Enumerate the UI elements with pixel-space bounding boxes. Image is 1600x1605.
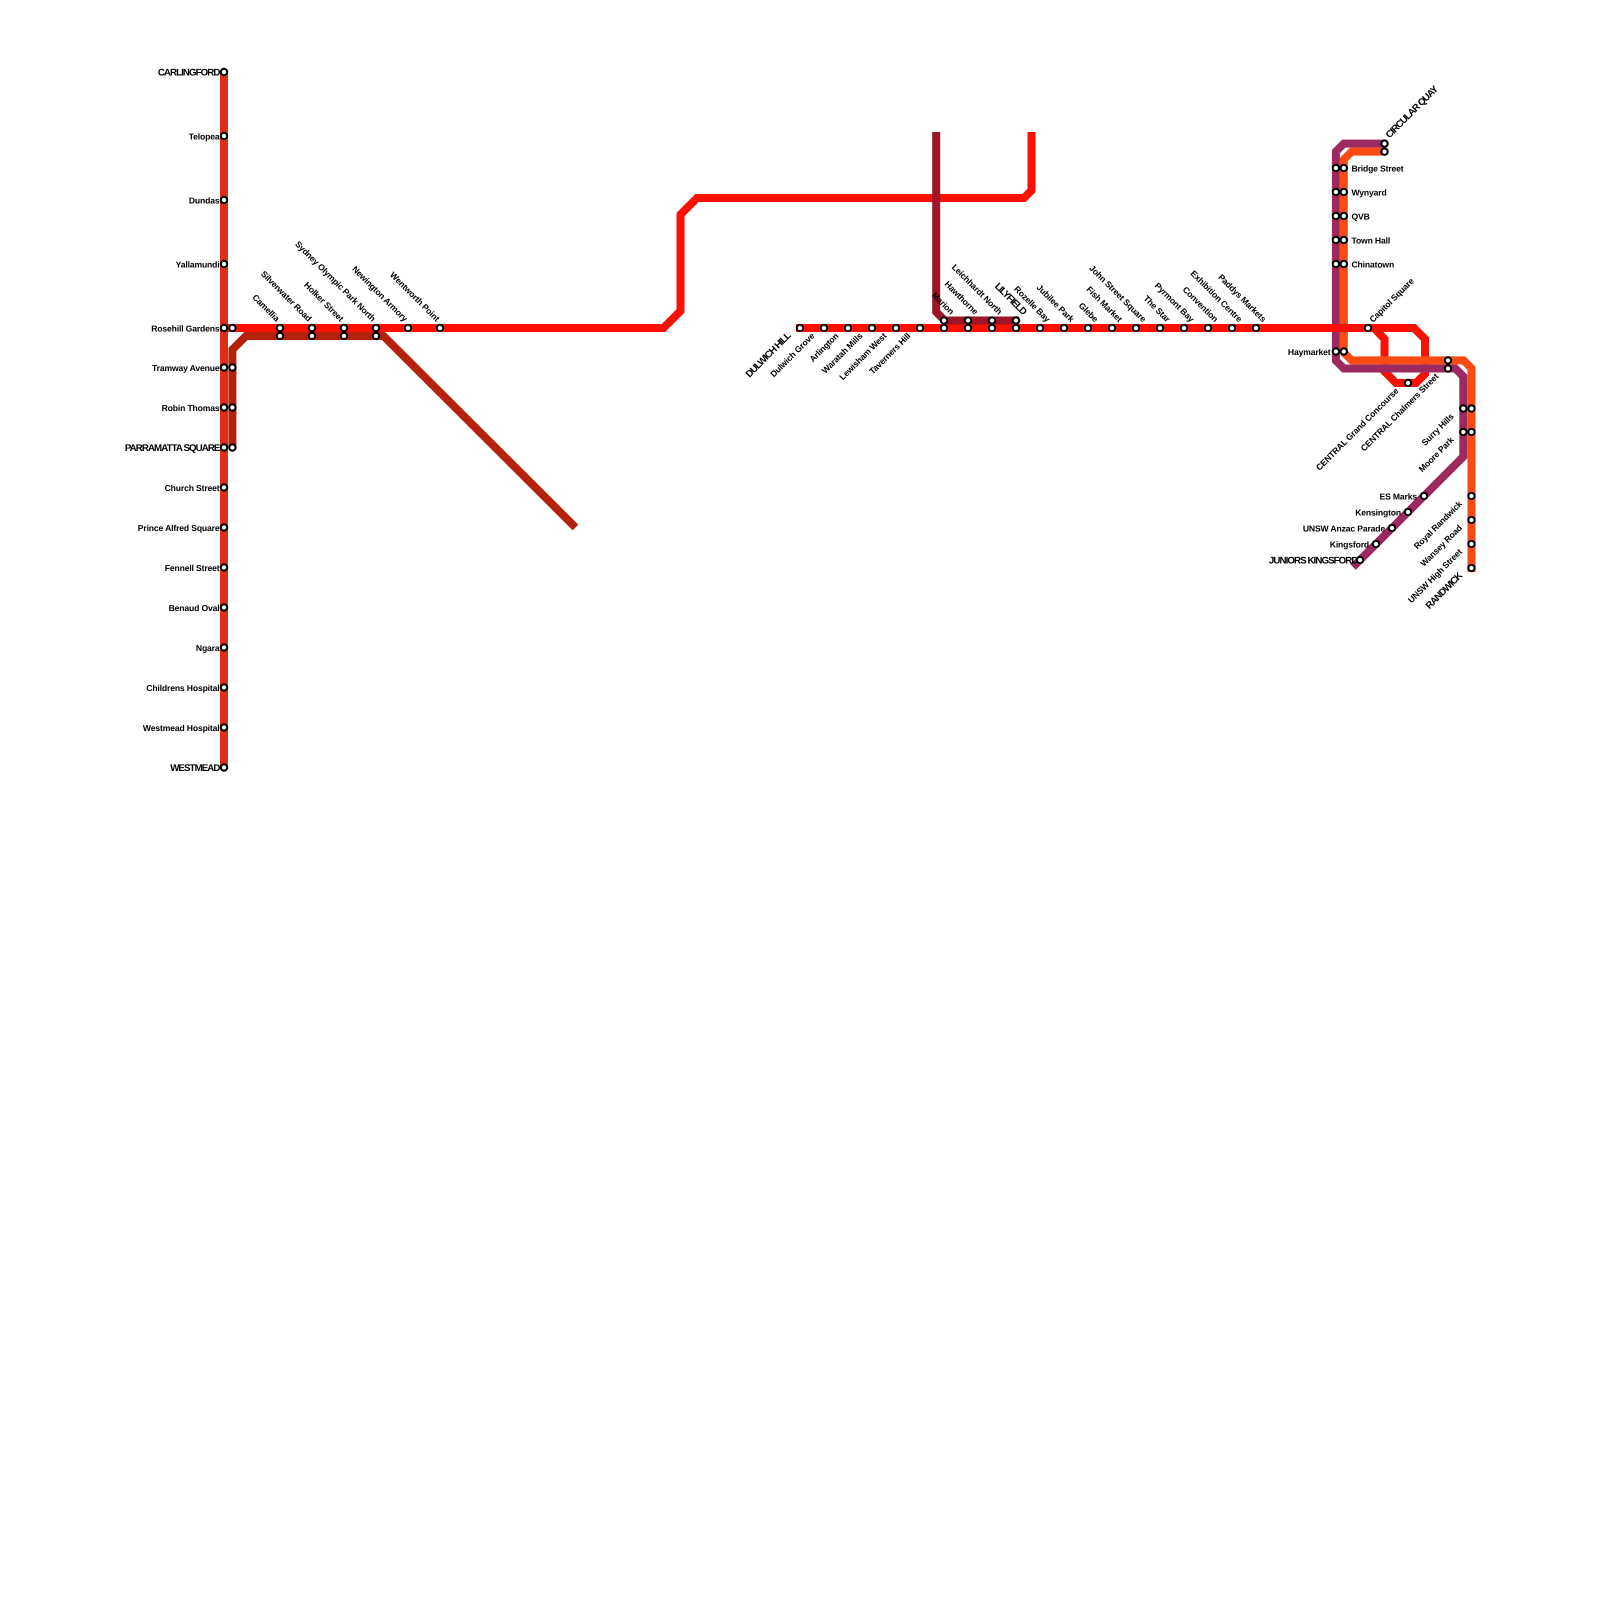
station ES Marks <box>1380 491 1428 501</box>
station LILYFIELD <box>992 281 1029 331</box>
station Wentworth Point <box>388 270 443 331</box>
svg-text:WESTMEAD: WESTMEAD <box>170 763 220 774</box>
station The Star <box>1142 293 1173 331</box>
svg-text:Telopea: Telopea <box>189 131 220 141</box>
station Childrens Hospital <box>146 683 227 693</box>
station Fish Market <box>1084 284 1124 331</box>
station UNSW High Street <box>1406 541 1475 605</box>
station Convention <box>1181 284 1220 331</box>
station DULWICH HILL <box>744 325 803 380</box>
svg-text:Bridge Street: Bridge Street <box>1352 163 1404 173</box>
station Royal Randwick <box>1412 493 1475 551</box>
station Taverners Hill <box>867 325 923 376</box>
line bright-red Dulwich Hill - Central main segment <box>796 324 1414 332</box>
station Moore Park <box>1417 429 1475 474</box>
station Waratah Mills <box>820 325 875 376</box>
station Camellia <box>250 292 283 339</box>
svg-text:Fennell Street: Fennell Street <box>165 563 220 573</box>
station Exhibition Centre <box>1189 268 1245 331</box>
station Capitol Square <box>1365 276 1416 332</box>
station Hawthorne <box>943 279 981 331</box>
svg-text:UNSW Anzac Parade: UNSW Anzac Parade <box>1303 523 1386 533</box>
svg-text:Rosehill Gardens: Rosehill Gardens <box>151 323 220 333</box>
station Dulwich Grove <box>768 325 827 379</box>
svg-text:Chinatown: Chinatown <box>1352 259 1395 269</box>
station John Street Square <box>1087 263 1148 331</box>
station Rozelle Bay <box>1012 284 1052 331</box>
station CENTRAL Chalmers Street <box>1359 357 1452 453</box>
line bright-red Rosehill Gardens - northern elbow segment <box>224 132 1032 328</box>
station Dundas <box>189 195 227 205</box>
station WESTMEAD <box>170 763 227 774</box>
station Haymarket <box>1288 347 1347 357</box>
svg-text:Yallamundi: Yallamundi <box>176 259 220 269</box>
station Tramway Avenue <box>152 363 236 373</box>
station Silverwater Road <box>259 269 315 339</box>
station Jubilee Park <box>1035 282 1077 331</box>
station Newington Armory <box>350 264 411 331</box>
station Bridge Street <box>1333 163 1404 173</box>
station Marion <box>930 290 956 331</box>
station Telopea <box>189 131 227 141</box>
svg-text:PARRAMATTA SQUARE: PARRAMATTA SQUARE <box>125 443 221 454</box>
station Westmead Hospital <box>143 723 227 733</box>
station Kensington <box>1355 507 1411 517</box>
line bright-red Central balloon loop <box>1374 328 1425 383</box>
station Chinatown <box>1333 259 1394 269</box>
line orange Circular Quay - Randwick <box>1344 152 1472 572</box>
line maroon north stub - Marion - Lilyfield overlay <box>936 132 1019 321</box>
station Paddys Markets <box>1216 272 1268 331</box>
svg-text:ES Marks: ES Marks <box>1380 491 1418 501</box>
station RANDWICK <box>1424 565 1475 612</box>
station CENTRAL Grand Concourse <box>1314 380 1411 473</box>
svg-text:Benaud Oval: Benaud Oval <box>169 603 220 613</box>
svg-text:Church Street: Church Street <box>165 483 220 493</box>
svg-text:Prince Alfred Square: Prince Alfred Square <box>138 523 220 533</box>
station Glebe <box>1077 300 1101 331</box>
station CIRCULAR QUAY <box>1381 83 1441 154</box>
station Wynyard <box>1333 187 1387 197</box>
svg-text:Robin Thomas: Robin Thomas <box>162 403 220 413</box>
svg-text:QVB: QVB <box>1352 211 1370 221</box>
station Kingsford <box>1330 539 1379 549</box>
station Surry Hills <box>1419 405 1474 447</box>
station Yallamundi <box>176 259 228 269</box>
station Church Street <box>165 483 228 493</box>
station Robin Thomas <box>162 403 236 413</box>
station UNSW Anzac Parade <box>1303 523 1395 533</box>
svg-text:Ngara: Ngara <box>196 643 220 653</box>
station PARRAMATTA SQUARE <box>125 443 236 454</box>
station Wansey Road <box>1418 517 1474 569</box>
svg-text:Kingsford: Kingsford <box>1330 539 1369 549</box>
svg-text:Kensington: Kensington <box>1355 507 1401 517</box>
svg-text:CARLINGFORD: CARLINGFORD <box>158 67 221 78</box>
line red Carlingford - Westmead vertical <box>220 70 228 769</box>
svg-text:Tramway Avenue: Tramway Avenue <box>152 363 220 373</box>
station QVB <box>1333 211 1370 221</box>
station Prince Alfred Square <box>138 523 227 533</box>
station Rosehill Gardens <box>151 323 235 333</box>
svg-text:Childrens Hospital: Childrens Hospital <box>146 683 219 693</box>
svg-text:Westmead Hospital: Westmead Hospital <box>143 723 220 733</box>
station Pyrmont Bay <box>1153 281 1197 332</box>
svg-text:JUNIORS KINGSFORD: JUNIORS KINGSFORD <box>1269 555 1358 566</box>
station Fennell Street <box>165 563 227 573</box>
station Sydney Olympic Park North <box>293 239 379 339</box>
station JUNIORS KINGSFORD <box>1269 555 1363 566</box>
line dark-red Parramatta Square - Sydney Olympic Park branch with SE diagonal <box>232 336 575 528</box>
station Arlington <box>807 325 851 364</box>
line purple Circular Quay - Juniors Kingsford <box>1336 144 1463 567</box>
station Leichhardt North <box>950 262 1004 331</box>
station Holker Street <box>302 280 347 339</box>
svg-text:Dundas: Dundas <box>189 195 220 205</box>
station Lewisham West <box>837 325 899 382</box>
station Benaud Oval <box>169 603 228 613</box>
station Ngara <box>196 643 227 653</box>
svg-text:Haymarket: Haymarket <box>1288 347 1331 357</box>
svg-text:Town Hall: Town Hall <box>1352 235 1391 245</box>
svg-text:Wynyard: Wynyard <box>1352 187 1387 197</box>
station CARLINGFORD <box>158 67 227 78</box>
station Town Hall <box>1333 235 1390 245</box>
